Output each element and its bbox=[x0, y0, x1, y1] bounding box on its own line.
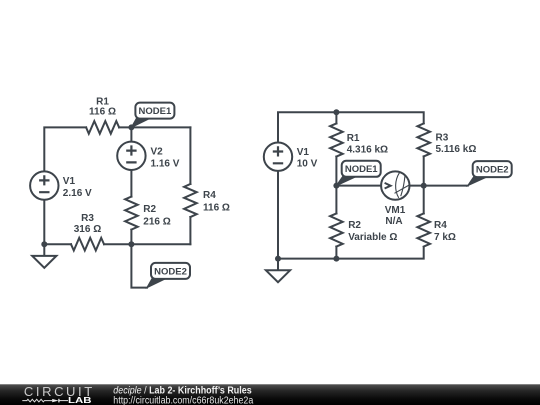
CircuitLab logo resistor+diode glyph bbox=[22, 399, 52, 402]
wire: R3 to bottom node to bottom-right corner bbox=[104, 243, 190, 245]
node flag NODE2 (left) bbox=[147, 278, 167, 288]
junction node dot at NODE1 bbox=[128, 124, 134, 130]
svg-text:http://circuitlab.com/c66r8uk2: http://circuitlab.com/c66r8uk2ehe2a bbox=[113, 396, 253, 405]
voltmeter VM1 bbox=[381, 171, 409, 199]
wire: voltmeter right through junction to NODE2 flag bbox=[410, 185, 468, 187]
resistor R4 bbox=[184, 184, 197, 217]
svg-text:R4: R4 bbox=[434, 220, 447, 231]
svg-text:N/A: N/A bbox=[385, 216, 402, 227]
svg-text:7 kΩ: 7 kΩ bbox=[434, 232, 456, 243]
resistor R1 bbox=[86, 121, 119, 134]
junction node dot bottom-left (right circuit) bbox=[275, 256, 281, 262]
svg-text:NODE1: NODE1 bbox=[139, 106, 172, 117]
resistor R1 (right) bbox=[330, 124, 343, 157]
voltage source V1 (10 V) bbox=[264, 143, 292, 171]
wire: R1 bottom to NODE1 junction bbox=[335, 157, 337, 186]
svg-text:R2: R2 bbox=[348, 220, 361, 231]
svg-text:R1: R1 bbox=[347, 133, 360, 144]
svg-text:LAB: LAB bbox=[68, 396, 92, 405]
node flag NODE1 (left) bbox=[131, 118, 151, 128]
junction node dot NODE2 rail (right circuit) bbox=[421, 183, 427, 189]
svg-text:NODE2: NODE2 bbox=[154, 266, 187, 277]
ground (left circuit) bbox=[43, 244, 45, 256]
svg-text:NODE1: NODE1 bbox=[345, 164, 378, 175]
svg-text:VM1: VM1 bbox=[385, 205, 406, 216]
wire: V1 bottom to bottom-left corner bbox=[44, 200, 71, 244]
wire: middle branch top to R1 bbox=[335, 112, 337, 123]
wire: R1 to node1 to top-right corner bbox=[119, 126, 190, 128]
wire: R4 bottom to bottom wire bbox=[189, 217, 191, 244]
voltage source V2 (1.16 V) bbox=[117, 142, 145, 170]
wire: V2 bottom to R2 top bbox=[130, 170, 132, 197]
junction node dot bottom middle (right circuit) bbox=[333, 256, 339, 262]
wire: NODE1 junction down to R2 bbox=[335, 186, 337, 214]
svg-text:10 V: 10 V bbox=[297, 159, 318, 170]
ground (right circuit) bbox=[277, 259, 279, 271]
wire: right circuit top rail bbox=[278, 112, 424, 142]
svg-text:R3: R3 bbox=[81, 213, 94, 224]
wire: R2 bottom to bottom rail bbox=[335, 247, 337, 259]
svg-text:2.16 V: 2.16 V bbox=[63, 188, 92, 199]
svg-text:Variable Ω: Variable Ω bbox=[348, 232, 397, 243]
wire: right branch down from top corner to R4 bbox=[189, 127, 191, 184]
svg-text:1.16 V: 1.16 V bbox=[151, 158, 180, 169]
node flag NODE2 (right) bbox=[468, 176, 489, 186]
svg-text:V1: V1 bbox=[297, 147, 310, 158]
wire: node1 down to V2 top bbox=[130, 127, 132, 141]
resistor R2 bbox=[125, 197, 138, 230]
svg-text:116 Ω: 116 Ω bbox=[89, 107, 116, 118]
wire: R2 bottom to bottom node bbox=[130, 230, 132, 245]
junction node dot top middle (right circuit) bbox=[333, 109, 339, 115]
svg-text:5.116 kΩ: 5.116 kΩ bbox=[436, 144, 477, 155]
svg-text:116 Ω: 116 Ω bbox=[203, 203, 230, 214]
svg-text:V1: V1 bbox=[63, 176, 76, 187]
svg-text:316 Ω: 316 Ω bbox=[74, 224, 101, 235]
svg-text:R4: R4 bbox=[203, 190, 216, 201]
svg-text:R3: R3 bbox=[436, 133, 449, 144]
junction node dot at ground bbox=[41, 241, 47, 247]
junction node dot NODE1 (right circuit) bbox=[333, 183, 339, 189]
svg-text:R2: R2 bbox=[143, 204, 156, 215]
node flag NODE1 (right) bbox=[336, 176, 357, 186]
wire: NODE1 junction to voltmeter left bbox=[336, 185, 380, 187]
resistor R2 (right, variable) bbox=[330, 214, 343, 247]
wire: R3 bottom to NODE2 junction bbox=[423, 156, 425, 213]
svg-text:216 Ω: 216 Ω bbox=[143, 217, 170, 228]
wire: bottom node down then right to NODE2 flag bbox=[131, 244, 147, 287]
wire: left circuit top-left L from V1 top to R1 bbox=[44, 127, 86, 171]
wire: V1 bottom to bottom rail bbox=[278, 171, 424, 258]
resistor R3 (right) bbox=[417, 123, 430, 156]
resistor R3 bbox=[71, 238, 104, 251]
svg-text:V2: V2 bbox=[151, 146, 164, 157]
voltage source V1 (2.16 V) bbox=[30, 171, 58, 199]
junction node dot bottom middle bbox=[128, 241, 134, 247]
svg-text:4.316 kΩ: 4.316 kΩ bbox=[347, 144, 388, 155]
svg-text:NODE2: NODE2 bbox=[476, 165, 509, 176]
resistor R4 (right) bbox=[417, 214, 430, 247]
